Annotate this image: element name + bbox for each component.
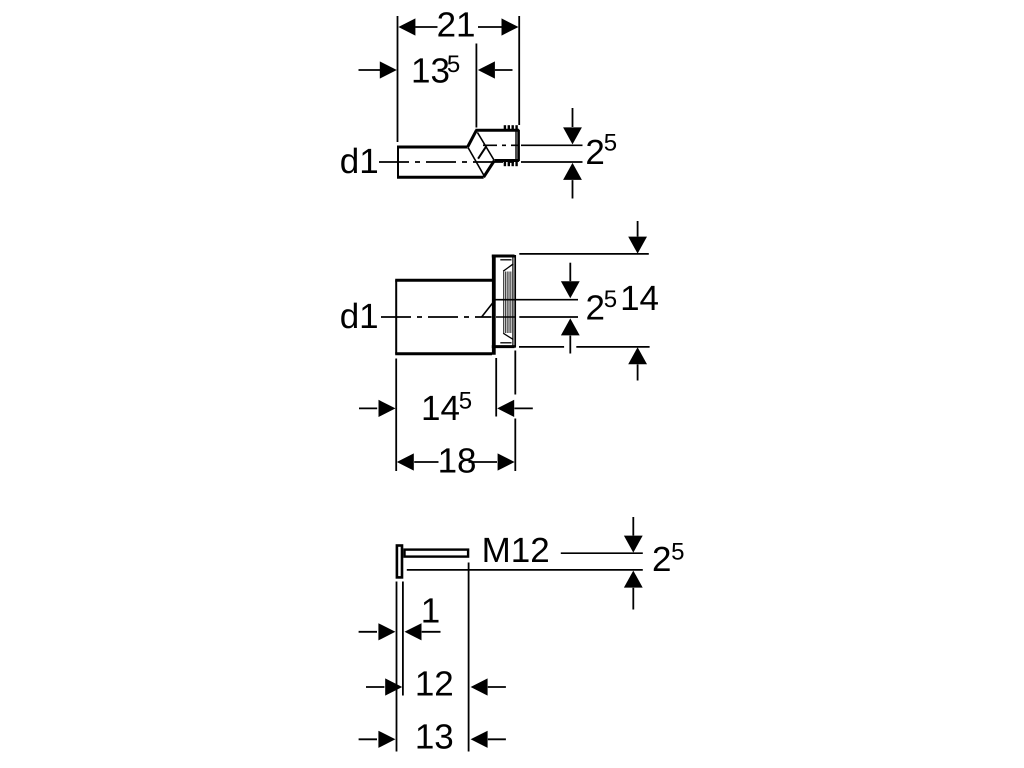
dim 13 left arrow (359, 731, 396, 748)
dim 2.5 bottom arrow (bottom view) (624, 571, 643, 610)
dim 13.5 label (411, 51, 460, 90)
svg-text:M12: M12 (482, 531, 550, 570)
pipe bottom edge middle view (395, 352, 492, 355)
dim 18 arrow left (397, 453, 414, 470)
dim 14 top reference line (519, 253, 649, 255)
svg-text:14: 14 (421, 389, 460, 428)
label d1 top view (340, 142, 379, 181)
bend seam line (478, 146, 486, 159)
socket right edge outer line (514, 255, 516, 348)
dim 13.5 right arrow (478, 61, 513, 78)
svg-text:5: 5 (447, 51, 460, 78)
centerline upper axis top view (483, 144, 518, 146)
pipe left end cap top view (397, 147, 399, 177)
socket axis reference line (495, 299, 578, 301)
svg-text:5: 5 (671, 539, 684, 566)
centerline pipe axis middle view (381, 316, 492, 318)
dim 21 extension line left (397, 16, 399, 142)
dim 13.5 left arrow (359, 61, 397, 78)
svg-text:5: 5 (459, 387, 472, 414)
socket inner top line (500, 259, 511, 261)
svg-text:d1: d1 (340, 297, 379, 336)
dim 2.5 top arrow (bottom view) (624, 517, 643, 553)
dim 18 label (438, 441, 477, 480)
socket bottom chamfer (503, 333, 513, 339)
svg-text:21: 21 (437, 6, 476, 45)
dim 2.5 bottom arrow (middle view) (561, 318, 580, 353)
dim 21 arrow left (398, 18, 415, 35)
svg-text:2: 2 (586, 289, 605, 328)
label M12 (482, 531, 550, 570)
socket inner bottom line (500, 342, 511, 344)
svg-text:14: 14 (620, 279, 659, 318)
offset top diagonal (468, 130, 477, 147)
dim 13 label (415, 718, 454, 757)
upper tube top edge (475, 129, 519, 132)
dim 12 label (415, 664, 454, 703)
dim 21 dimension line (415, 26, 502, 28)
svg-text:13: 13 (411, 52, 450, 91)
centerline main axis top view (379, 161, 518, 163)
dim 1 left arrow (359, 623, 396, 640)
dim 21 arrow right (502, 18, 519, 35)
axis reference line right upper (521, 144, 583, 146)
dim 14.5 right arrow (497, 400, 533, 417)
upper tube end cap outer line (517, 130, 520, 161)
extension line pipe left (middle) (395, 359, 397, 472)
gasket ribs (504, 272, 511, 334)
dim 2.5 label (middle view) (586, 286, 618, 328)
pipe left end cap middle view (395, 280, 397, 354)
dim 14 bottom reference line (519, 346, 650, 348)
dim 12 right arrow (471, 678, 506, 695)
pipe top edge top view (397, 146, 468, 149)
svg-text:13: 13 (415, 718, 454, 757)
socket right edge inner line (512, 257, 514, 347)
svg-text:12: 12 (415, 664, 454, 703)
socket top edge (492, 255, 515, 258)
stud head outline (397, 546, 402, 578)
svg-text:2: 2 (652, 540, 671, 579)
dim 2.5 label (top view) (585, 130, 617, 173)
pipe bottom edge top view (397, 176, 484, 179)
bend inner edge upper (477, 132, 494, 160)
pipe axis reference line (519, 316, 578, 318)
pipe right end / socket back wall (492, 255, 496, 355)
dim 2.5 top arrow (middle view) (561, 263, 580, 299)
dim 14.5 label (421, 387, 472, 427)
stud axis reference line (561, 552, 643, 554)
extension line 18 right (514, 351, 516, 472)
dim 13 right arrow (471, 731, 506, 748)
dim 18 dimension line (414, 461, 497, 463)
extension line shaft end (468, 563, 470, 752)
socket bottom edge (492, 345, 515, 348)
pipe top edge middle view (395, 279, 492, 282)
dim 21 label (437, 6, 476, 45)
dim 2.5 top arrow (top view) (563, 108, 582, 144)
extension line head right face (402, 582, 404, 696)
socket top chamfer (503, 264, 513, 271)
dim 12 left arrow (366, 678, 402, 695)
svg-text:2: 2 (585, 133, 604, 172)
dim 2.5 label (bottom view) (652, 539, 684, 580)
pipe axis reference line bottom view (407, 569, 643, 571)
offset bottom diagonal (484, 161, 495, 178)
dim 13.5 extension line (475, 44, 477, 128)
thread serrations bottom (505, 161, 517, 167)
axis jog diagonal (482, 300, 496, 317)
upper tube bottom edge (494, 159, 519, 162)
svg-text:1: 1 (421, 592, 440, 631)
axis reference line right lower (521, 161, 583, 163)
dim 14 bottom arrow (628, 347, 647, 380)
dim 2.5 bottom arrow (top view) (563, 163, 582, 199)
dim 21 extension line right (518, 16, 520, 125)
thread serrations top (505, 125, 517, 130)
stud shaft outline (405, 550, 469, 557)
dim 14.5 left arrow (359, 400, 396, 417)
dim 1 right arrow (405, 623, 441, 640)
svg-text:18: 18 (438, 441, 477, 480)
pipe axis through socket (496, 316, 516, 318)
extension line head left face (396, 582, 398, 752)
upper tube end cap inner line (515, 131, 517, 160)
dim 1 label (421, 592, 440, 631)
dim 14 top arrow (628, 221, 647, 254)
svg-text:d1: d1 (340, 142, 379, 181)
label d1 middle view (340, 297, 379, 336)
bend inner edge lower (468, 148, 484, 176)
svg-text:5: 5 (604, 130, 617, 157)
svg-text:5: 5 (604, 286, 617, 313)
dim 14 label (620, 279, 659, 318)
extension line 14.5 right (495, 358, 497, 417)
dim 18 arrow right (498, 453, 515, 470)
